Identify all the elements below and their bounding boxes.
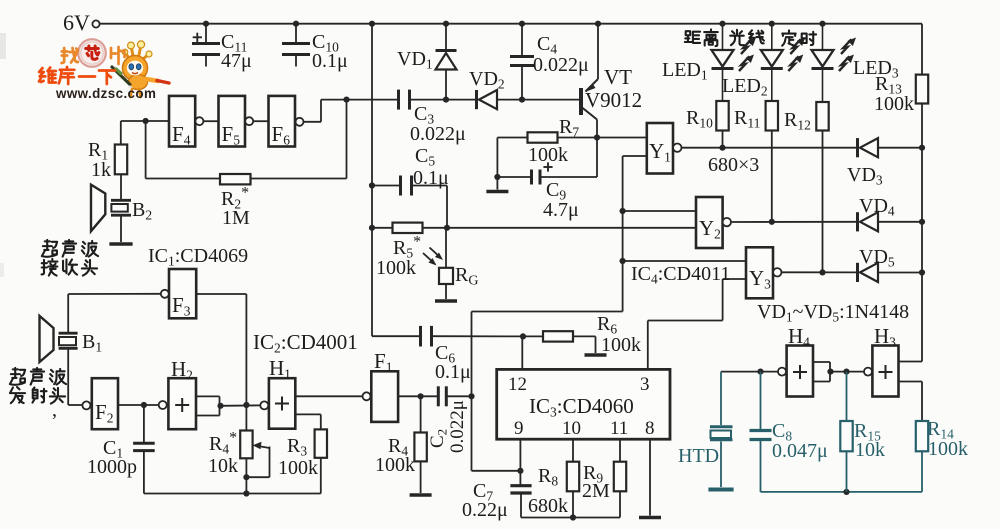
- svg-text:100k: 100k: [601, 334, 641, 356]
- svg-text:IC1:CD4069: IC1:CD4069: [148, 245, 248, 269]
- svg-text:100k: 100k: [528, 144, 568, 166]
- svg-text:0.1μ: 0.1μ: [413, 167, 449, 189]
- svg-text:9: 9: [514, 418, 524, 439]
- svg-text:V9012: V9012: [585, 88, 642, 112]
- svg-text:100k: 100k: [928, 438, 968, 460]
- svg-text:100k: 100k: [375, 454, 415, 476]
- svg-text:IC4:CD4011: IC4:CD4011: [631, 263, 730, 287]
- svg-text:0.022μ: 0.022μ: [447, 400, 468, 453]
- svg-text:2M: 2M: [582, 480, 610, 502]
- svg-text:www.dzsc.com: www.dzsc.com: [55, 86, 156, 101]
- svg-text:1k: 1k: [91, 159, 111, 181]
- svg-text:12: 12: [508, 374, 527, 395]
- svg-text:47μ: 47μ: [221, 50, 252, 72]
- svg-text:8: 8: [645, 418, 655, 439]
- svg-text:680k: 680k: [528, 495, 568, 517]
- svg-text:6V: 6V: [63, 10, 90, 35]
- svg-text:100k: 100k: [376, 257, 416, 279]
- svg-text:0.022μ: 0.022μ: [410, 123, 466, 145]
- svg-text:1M: 1M: [222, 207, 250, 229]
- svg-text:680×3: 680×3: [708, 154, 759, 176]
- svg-text:10k: 10k: [208, 455, 238, 477]
- svg-text:IC2:CD4001: IC2:CD4001: [253, 330, 358, 356]
- svg-text:LED2: LED2: [722, 75, 768, 99]
- svg-text:10: 10: [562, 418, 581, 439]
- svg-text:,: ,: [52, 399, 57, 421]
- svg-text:0.1μ: 0.1μ: [312, 50, 348, 72]
- svg-text:IC3:CD4060: IC3:CD4060: [529, 394, 634, 420]
- svg-text:100k: 100k: [278, 457, 318, 479]
- svg-text:4.7μ: 4.7μ: [543, 199, 579, 221]
- svg-text:100k: 100k: [874, 93, 914, 115]
- svg-text:0.1μ: 0.1μ: [435, 361, 471, 383]
- svg-text:VT: VT: [604, 65, 632, 89]
- svg-text:3: 3: [640, 374, 650, 395]
- svg-text:0.047μ: 0.047μ: [772, 440, 828, 462]
- svg-text:10k: 10k: [855, 439, 885, 461]
- svg-text:LED1: LED1: [662, 59, 708, 83]
- svg-text:0.22μ: 0.22μ: [462, 499, 508, 521]
- svg-text:1000p: 1000p: [87, 456, 137, 478]
- svg-text:11: 11: [610, 418, 628, 439]
- svg-text:HTD: HTD: [678, 445, 719, 467]
- svg-text:0.022μ: 0.022μ: [533, 54, 589, 76]
